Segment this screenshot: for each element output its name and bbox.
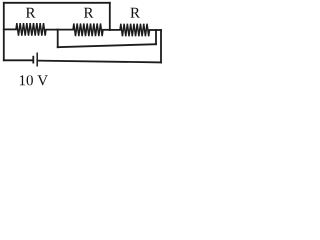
wire left vertical (3, 3, 5, 61)
wire right outer vertical (160, 30, 162, 62)
label R1 value R (26, 8, 36, 18)
battery B1 short plate (negative) (32, 56, 34, 64)
label R3 value R (130, 8, 140, 18)
wire bottom rail left (to battery) (4, 59, 33, 61)
wire mid drop at node M1 (57, 30, 59, 48)
wire resistor row: left node to R1 (4, 28, 16, 30)
wire top-right vertical drop (109, 3, 111, 30)
wire mid rail (58, 44, 156, 47)
wire resistor row: R1 to R2 (46, 29, 73, 31)
wire resistor row: R2 to vertical (103, 29, 110, 31)
wire bottom rail right (from battery) (38, 61, 161, 63)
label battery value 10 V (20, 75, 25, 85)
wire resistor row: vertical to R3 (110, 29, 120, 31)
label R2 value R (84, 8, 94, 18)
resistor R2 (73, 24, 103, 37)
resistor R1 (16, 23, 46, 36)
wire mid rail right vertical (155, 30, 157, 44)
wire top rail (4, 2, 110, 4)
wire resistor row: R3 to right verticals (150, 29, 162, 31)
resistor R3 (120, 24, 150, 37)
battery B1 long plate (positive) (36, 53, 38, 67)
